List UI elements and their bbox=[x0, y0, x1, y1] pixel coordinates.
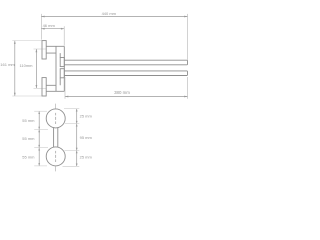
extension line right of 440 mm bbox=[187, 14, 189, 60]
dimension 110 mm line bbox=[35, 49, 37, 88]
right dimension ticks bbox=[76, 109, 78, 167]
center line below bottom rosette bbox=[55, 166, 57, 171]
right extension lines bbox=[63, 109, 80, 167]
dimension 110 mm arrows bbox=[36, 49, 38, 88]
dimension 440 mm arrows bbox=[41, 16, 187, 18]
right stacked dimension line bbox=[76, 109, 78, 167]
bottom mounting block bbox=[46, 85, 64, 91]
svg-text:95 mm: 95 mm bbox=[80, 135, 93, 140]
dimension 440 mm line bbox=[41, 16, 187, 18]
hinge block lower bbox=[60, 69, 64, 78]
dimension 46 mm arrows bbox=[41, 28, 64, 30]
extension line right of 46 mm bbox=[63, 26, 65, 45]
svg-text:110mm: 110mm bbox=[19, 63, 33, 68]
left extension lines bbox=[34, 111, 48, 166]
svg-text:25 mm: 25 mm bbox=[80, 114, 93, 119]
extension line top of 110 mm bbox=[34, 48, 47, 50]
left dimension ticks bbox=[38, 111, 40, 166]
extension line left of 440 mm bbox=[40, 14, 42, 40]
rosette top (front view circle) bbox=[46, 109, 65, 128]
extension line bottom of 110 mm bbox=[34, 87, 47, 89]
post inner edge segments bbox=[59, 53, 61, 85]
svg-text:25 mm: 25 mm bbox=[80, 155, 93, 160]
post left edge bbox=[55, 46, 57, 91]
arm 1 (upper towel rail, side view) bbox=[64, 60, 187, 65]
svg-text:55 mm: 55 mm bbox=[22, 154, 35, 159]
rosette bottom (front view circle) bbox=[46, 147, 65, 166]
dimension 380 mm arrows bbox=[65, 96, 188, 98]
dimension 380 mm line bbox=[65, 96, 188, 98]
extension line top of 161 mm bbox=[12, 40, 42, 42]
dimension 161 mm arrows bbox=[14, 41, 16, 96]
screw marks in bottom rosette bbox=[55, 151, 57, 162]
connecting bar between rosettes bbox=[54, 127, 58, 147]
svg-text:55 mm: 55 mm bbox=[22, 136, 35, 141]
screw marks in top rosette bbox=[55, 113, 57, 124]
extension line left of 380 mm bbox=[64, 77, 66, 99]
arm 2 (lower towel rail, side view) bbox=[64, 71, 187, 76]
center line above top rosette bbox=[55, 104, 57, 109]
extension line bottom of 161 mm bbox=[12, 95, 42, 97]
left stacked dimension line bbox=[38, 111, 40, 166]
svg-text:46 mm: 46 mm bbox=[43, 23, 56, 28]
svg-text:55 mm: 55 mm bbox=[22, 118, 35, 123]
svg-text:161 mm: 161 mm bbox=[0, 62, 15, 67]
top mounting block bbox=[46, 46, 64, 53]
wall plate bottom (side view) bbox=[42, 78, 46, 96]
dimension 161 mm line bbox=[14, 41, 16, 96]
hinge block upper bbox=[60, 58, 64, 67]
extension line right of 380 mm bbox=[187, 77, 189, 99]
svg-text:440 mm: 440 mm bbox=[102, 11, 117, 16]
wall plate top (side view) bbox=[42, 41, 46, 59]
svg-text:380 mm: 380 mm bbox=[114, 90, 130, 95]
dimension 46 mm line bbox=[41, 28, 64, 30]
post right edge bbox=[63, 46, 65, 91]
